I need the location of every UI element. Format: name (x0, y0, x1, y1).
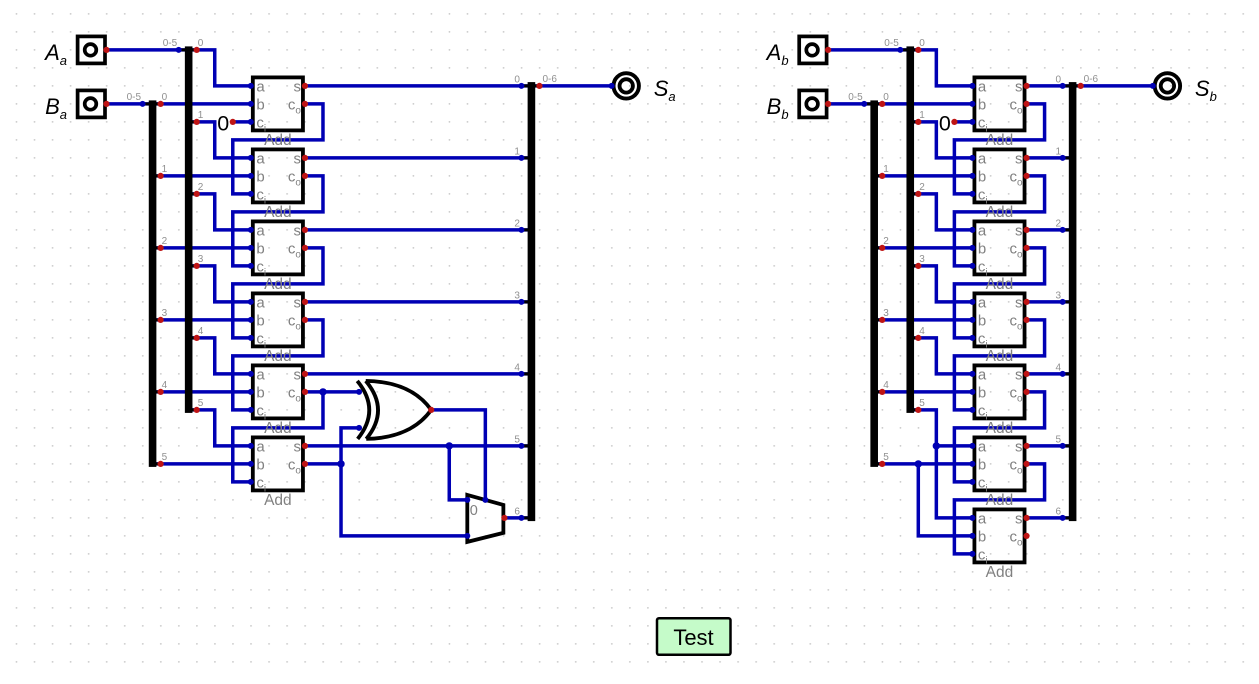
adder Add7 (b) (974, 509, 1024, 581)
Add6 pin s (1023, 443, 1029, 449)
Add6 pin c_i (248, 479, 254, 485)
wire splitter B bit 5 to adder b (874, 462, 972, 466)
svg-text:s: s (293, 78, 301, 95)
Add7 pin b (969, 533, 975, 539)
wire splitter B bit 3 to adder b (153, 318, 251, 322)
splitter A_a output pin 0 (194, 47, 200, 53)
splitter B_a output pin 0 (158, 101, 164, 107)
output splitter bar (a) (521, 82, 539, 521)
wire sum bit 3 to output splitter (305, 300, 531, 304)
mux select pin (482, 497, 488, 503)
svg-text:6: 6 (514, 506, 520, 517)
svg-text:0: 0 (162, 92, 168, 103)
Add5 pin b (969, 389, 975, 395)
svg-text:1: 1 (919, 110, 925, 121)
input button A_a (78, 36, 105, 63)
svg-text:b: b (256, 384, 264, 401)
wire sum bit 0 to output splitter (305, 84, 531, 88)
wire carry c_o to c_i (233, 176, 323, 266)
svg-text:a: a (978, 510, 987, 527)
wire input B_a to splitter (107, 102, 153, 106)
output splitter input pin 5 (518, 443, 524, 449)
svg-text:b: b (978, 168, 986, 185)
splitter B_a bar (143, 100, 161, 467)
wire carry c_o to c_i (954, 320, 1044, 410)
svg-text:a: a (978, 366, 987, 383)
Add1 pin a (248, 83, 254, 89)
output splitter output pin (b) (1078, 83, 1084, 89)
adder Add6 (b) (974, 437, 1024, 509)
svg-text:b: b (978, 312, 986, 329)
splitter B_b output pin 3 (879, 317, 885, 323)
wire splitter B bit 1 to adder b (153, 174, 251, 178)
splitter A_a input pin (176, 47, 182, 53)
splitter B_b output pin 4 (879, 389, 885, 395)
Add2 pin a (969, 155, 975, 161)
svg-text:3: 3 (198, 254, 204, 265)
svg-text:0-6: 0-6 (542, 74, 557, 85)
splitter A_b output pin 5 (915, 407, 921, 413)
splitter B_b output pin 2 (879, 245, 885, 251)
junction on c_o5 (319, 388, 326, 395)
splitter A_b output pin 2 (915, 191, 921, 197)
wire constant 0 to carry-in (233, 120, 251, 124)
pin of input B_b (825, 101, 831, 107)
svg-text:s: s (1015, 510, 1023, 527)
wire splitter B bit 4 to adder b (874, 390, 972, 394)
splitter A_a output pin 3 (194, 263, 200, 269)
svg-text:0: 0 (198, 38, 204, 49)
svg-text:1: 1 (1056, 146, 1062, 157)
output splitter output pin (a) (536, 83, 542, 89)
Add3 pin c_o (302, 245, 308, 251)
svg-text:Add: Add (986, 204, 1014, 221)
xor gate U1 (357, 381, 431, 439)
input button B_a (78, 90, 105, 117)
wire sum bit 1 to output splitter (1027, 156, 1073, 160)
splitter B_b bar (864, 100, 882, 467)
svg-text:Add: Add (264, 420, 292, 437)
splitter A_b output pin 0 (915, 47, 921, 53)
output splitter input pin 6 (1060, 515, 1066, 521)
Add4 pin c_i (248, 335, 254, 341)
svg-text:b: b (256, 456, 264, 473)
wire branch to adder 7 input b (918, 464, 972, 536)
splitter B_b input pin (861, 101, 867, 107)
wire output splitter to output (531, 84, 611, 88)
svg-text:b: b (256, 312, 264, 329)
output splitter input pin 3 (1060, 299, 1066, 305)
output splitter input pin 6 (518, 515, 524, 521)
svg-text:1: 1 (514, 146, 520, 157)
splitter A_b output pin 3 (915, 263, 921, 269)
Add2 pin s (1023, 155, 1029, 161)
svg-text:s: s (1015, 294, 1023, 311)
mux output pin (501, 515, 507, 521)
wire splitter B bit 2 to adder b (153, 246, 251, 250)
Add3 pin s (1023, 227, 1029, 233)
mux input pin 0 (464, 497, 470, 503)
wire mux output to output splitter (504, 516, 532, 520)
svg-text:3: 3 (162, 308, 168, 319)
wire input B_b to splitter (828, 102, 874, 106)
svg-text:1: 1 (162, 164, 168, 175)
splitter B_b output pin 5 (879, 461, 885, 467)
Add1 pin c_i (248, 119, 254, 125)
svg-text:4: 4 (514, 362, 520, 373)
splitter B_a output pin 2 (158, 245, 164, 251)
wire carry c_o to c_i (233, 320, 323, 410)
pin of input B_a (103, 101, 109, 107)
wire sum bit 5 to output splitter (1027, 444, 1073, 448)
splitter A_b input pin (897, 47, 903, 53)
wire splitter B bit 0 to adder b (874, 102, 972, 106)
Add4 pin b (248, 317, 254, 323)
output splitter input pin 3 (518, 299, 524, 305)
Add3 pin c_i (248, 263, 254, 269)
wire carry c_o to c_i (954, 176, 1044, 266)
Add4 pin s (302, 299, 308, 305)
svg-text:5: 5 (883, 452, 889, 463)
svg-text:b: b (256, 96, 264, 113)
svg-text:5: 5 (1056, 434, 1062, 445)
wire splitter B bit 4 to adder b (153, 390, 251, 394)
svg-text:1: 1 (198, 110, 204, 121)
svg-text:s: s (293, 366, 301, 383)
svg-text:Add: Add (264, 276, 292, 293)
Add5 pin a (248, 371, 254, 377)
svg-text:2: 2 (919, 182, 925, 193)
adder Add5 (a) (253, 365, 303, 437)
Add4 pin s (1023, 299, 1029, 305)
wire splitter A bit 4 to adder a (189, 338, 251, 374)
wire splitter B bit 5 to adder b (153, 462, 251, 466)
Add6 pin c_i (969, 479, 975, 485)
splitter B_b output pin 0 (879, 101, 885, 107)
svg-text:3: 3 (514, 290, 520, 301)
svg-text:b: b (978, 528, 986, 545)
svg-text:b: b (978, 456, 986, 473)
splitter A_b output pin 1 (915, 119, 921, 125)
output splitter input pin 2 (1060, 227, 1066, 233)
svg-text:5: 5 (919, 398, 925, 409)
wire junction down to mux input 1 (341, 464, 467, 536)
junction on adder6 a wire (933, 442, 940, 449)
output splitter bar (b) (1063, 82, 1081, 521)
wire splitter A bit 1 to adder a (189, 122, 251, 158)
constant 0 pin (b) (951, 119, 957, 125)
svg-text:b: b (256, 168, 264, 185)
Add6 pin b (969, 461, 975, 467)
Add6 pin a (248, 443, 254, 449)
Add3 pin s (302, 227, 308, 233)
Add2 pin s (302, 155, 308, 161)
wire carry c_o to c_i (233, 392, 323, 482)
wire splitter A bit 2 to adder a (910, 194, 972, 230)
Add2 pin c_o (302, 173, 308, 179)
wire splitter A bit 4 to adder a (910, 338, 972, 374)
xor input pin 2 (356, 425, 362, 431)
svg-text:a: a (256, 78, 265, 95)
splitter B_b output pin 1 (879, 173, 885, 179)
svg-text:0: 0 (1056, 74, 1062, 85)
svg-text:Add: Add (264, 492, 292, 509)
wire input A_a to splitter (107, 48, 189, 52)
Add5 pin c_o (1023, 389, 1029, 395)
adder Add1 (a) (253, 77, 303, 148)
svg-text:Add: Add (986, 420, 1014, 437)
splitter B_a output pin 4 (158, 389, 164, 395)
svg-text:3: 3 (883, 308, 889, 319)
wire splitter B bit 0 to adder b (153, 102, 251, 106)
svg-text:Add: Add (264, 348, 292, 365)
multiplexer M1 (467, 495, 503, 542)
svg-text:0-5: 0-5 (127, 92, 142, 103)
Add5 pin s (302, 371, 308, 377)
Add5 pin b (248, 389, 254, 395)
input button B_b (799, 90, 826, 117)
svg-text:a: a (256, 150, 265, 167)
svg-text:a: a (256, 438, 265, 455)
svg-text:a: a (256, 294, 265, 311)
svg-text:s: s (293, 222, 301, 239)
adder Add3 (b) (974, 221, 1024, 293)
Add1 pin b (248, 101, 254, 107)
wire splitter A bit 3 to adder a (189, 266, 251, 302)
adder Add6 (a) (253, 437, 303, 509)
output splitter input pin 0 (518, 83, 524, 89)
wire sum bit 6 to output splitter (1027, 516, 1073, 520)
output splitter input pin 4 (518, 371, 524, 377)
Add5 pin c_o (302, 389, 308, 395)
svg-text:5: 5 (198, 398, 204, 409)
wire carry c_o to c_i (954, 104, 1044, 194)
svg-text:0: 0 (883, 92, 889, 103)
wire carry c_o6 to c_i7 (954, 464, 1044, 554)
wire splitter A bit 3 to adder a (910, 266, 972, 302)
Add1 pin c_o (302, 101, 308, 107)
svg-text:b: b (256, 240, 264, 257)
svg-text:b: b (978, 96, 986, 113)
Add6 pin s (302, 443, 308, 449)
input button A_b (799, 36, 826, 63)
svg-text:Add: Add (986, 348, 1014, 365)
svg-text:s: s (293, 294, 301, 311)
svg-text:4: 4 (198, 326, 204, 337)
Add5 pin s (1023, 371, 1029, 377)
splitter A_a output pin 2 (194, 191, 200, 197)
Add2 pin c_o (1023, 173, 1029, 179)
Add7 pin a (969, 515, 975, 521)
svg-text:0: 0 (919, 38, 925, 49)
wire c_o6 to junction (305, 462, 341, 466)
pin of input A_b (825, 47, 831, 53)
Add6 pin b (248, 461, 254, 467)
svg-text:4: 4 (162, 380, 168, 391)
wire sum bit 2 to output splitter (305, 228, 531, 232)
wire c_o5 junction to XOR input 1 (323, 390, 359, 394)
junction on s6 (446, 442, 453, 449)
junction on c_o6 (337, 460, 344, 467)
splitter A_a bar (179, 46, 197, 413)
output splitter input pin 1 (518, 155, 524, 161)
svg-text:a: a (978, 150, 987, 167)
svg-text:a: a (256, 222, 265, 239)
wire splitter B bit 2 to adder b (874, 246, 972, 250)
svg-text:2: 2 (883, 236, 889, 247)
svg-text:0-5: 0-5 (884, 38, 899, 49)
Add1 pin s (302, 83, 308, 89)
svg-text:4: 4 (1056, 362, 1062, 373)
constant 0 pin (a) (230, 119, 236, 125)
svg-text:Add: Add (986, 276, 1014, 293)
svg-text:0-5: 0-5 (163, 38, 178, 49)
svg-text:5: 5 (514, 434, 520, 445)
svg-text:a: a (978, 222, 987, 239)
Add2 pin a (248, 155, 254, 161)
wire splitter A bit 5 to adder a (189, 410, 251, 446)
Add4 pin b (969, 317, 975, 323)
Add4 pin c_i (969, 335, 975, 341)
svg-text:s: s (1015, 366, 1023, 383)
wire carry c_o to c_i (954, 392, 1044, 482)
splitter A_a output pin 1 (194, 119, 200, 125)
Add3 pin c_o (1023, 245, 1029, 251)
splitter B_a input pin (140, 101, 146, 107)
svg-text:2: 2 (198, 182, 204, 193)
splitter A_b output pin 4 (915, 335, 921, 341)
adder Add4 (a) (253, 293, 303, 365)
output splitter input pin 5 (1060, 443, 1066, 449)
Add2 pin c_i (969, 191, 975, 197)
splitter A_b bar (900, 46, 918, 413)
wire carry c_o to c_i (233, 104, 323, 194)
Add4 pin c_o (1023, 317, 1029, 323)
Add6 pin c_o (302, 461, 308, 467)
wire splitter A bit 0 to adder a (189, 50, 251, 86)
Add1 pin a (969, 83, 975, 89)
adder Add4 (b) (974, 293, 1024, 365)
svg-text:a: a (256, 366, 265, 383)
svg-text:b: b (978, 240, 986, 257)
Add3 pin a (969, 227, 975, 233)
mux input pin 1 (464, 533, 470, 539)
svg-text:4: 4 (883, 380, 889, 391)
adder Add2 (b) (974, 149, 1024, 221)
splitter A_a output pin 4 (194, 335, 200, 341)
svg-text:s: s (1015, 78, 1023, 95)
wire splitter A bit 5 to adder a (910, 410, 972, 446)
wire branch to adder 7 input a (936, 446, 972, 518)
Add2 pin c_i (248, 191, 254, 197)
svg-text:Add: Add (264, 132, 292, 149)
Add1 pin c_i (969, 119, 975, 125)
Add4 pin a (248, 299, 254, 305)
svg-text:0-6: 0-6 (1084, 74, 1099, 85)
wire constant 0 to carry-in (954, 120, 972, 124)
svg-text:s: s (1015, 222, 1023, 239)
wire splitter B bit 1 to adder b (874, 174, 972, 178)
Add2 pin b (248, 173, 254, 179)
svg-text:6: 6 (1056, 506, 1062, 517)
wire input A_b to splitter (828, 48, 910, 52)
svg-text:a: a (978, 78, 987, 95)
wire output splitter to output (1073, 84, 1153, 88)
Add5 pin c_i (248, 407, 254, 413)
adder Add3 (a) (253, 221, 303, 293)
svg-text:3: 3 (1056, 290, 1062, 301)
Add4 pin a (969, 299, 975, 305)
svg-text:2: 2 (514, 218, 520, 229)
Add3 pin b (969, 245, 975, 251)
Add3 pin b (248, 245, 254, 251)
svg-text:s: s (293, 150, 301, 167)
svg-text:5: 5 (162, 452, 168, 463)
svg-text:2: 2 (1056, 218, 1062, 229)
test case button Test (657, 618, 731, 655)
svg-text:s: s (1015, 150, 1023, 167)
svg-text:a: a (978, 438, 987, 455)
svg-text:0-5: 0-5 (848, 92, 863, 103)
output S_b (1155, 73, 1180, 98)
wire splitter B bit 3 to adder b (874, 318, 972, 322)
svg-text:b: b (978, 384, 986, 401)
Add7 pin s (1023, 515, 1029, 521)
output S_a wire pin (609, 83, 615, 89)
splitter B_a output pin 1 (158, 173, 164, 179)
xor output pin (428, 407, 434, 413)
Add4 pin c_o (302, 317, 308, 323)
svg-text:0: 0 (514, 74, 520, 85)
wire sum bit 4 to output splitter (1027, 372, 1073, 376)
adder Add5 (b) (974, 365, 1024, 437)
adder Add2 (a) (253, 149, 303, 221)
svg-text:s: s (1015, 438, 1023, 455)
svg-text:Add: Add (986, 492, 1014, 509)
wire sum bit 5 to output splitter (305, 444, 531, 448)
pin of input A_a (103, 47, 109, 53)
svg-text:0: 0 (470, 503, 478, 519)
output splitter input pin 1 (1060, 155, 1066, 161)
wire carry c_o to c_i (233, 248, 323, 338)
Add1 pin s (1023, 83, 1029, 89)
wire sum bit 2 to output splitter (1027, 228, 1073, 232)
svg-text:3: 3 (919, 254, 925, 265)
wire carry c_o to c_i (954, 248, 1044, 338)
svg-text:Add: Add (264, 204, 292, 221)
svg-text:1: 1 (883, 164, 889, 175)
Add1 pin b (969, 101, 975, 107)
wire sum bit 0 to output splitter (1027, 84, 1073, 88)
output splitter input pin 4 (1060, 371, 1066, 377)
output S_b wire pin (1150, 83, 1156, 89)
wire sum bit 3 to output splitter (1027, 300, 1073, 304)
Add1 pin c_o (1023, 101, 1029, 107)
wire splitter A bit 0 to adder a (910, 50, 972, 86)
wire splitter A bit 1 to adder a (910, 122, 972, 158)
output S_a (614, 73, 639, 98)
junction on adder6 b wire (915, 460, 922, 467)
svg-text:Add: Add (986, 564, 1014, 581)
wire junction up to XOR input 2 (341, 428, 359, 464)
adder Add1 (b) (974, 77, 1024, 148)
output splitter input pin 2 (518, 227, 524, 233)
splitter B_a output pin 3 (158, 317, 164, 323)
splitter A_a output pin 5 (194, 407, 200, 413)
xor input pin 1 (356, 389, 362, 395)
svg-text:a: a (978, 294, 987, 311)
wire s6 junction down to mux input 0 (449, 446, 467, 500)
